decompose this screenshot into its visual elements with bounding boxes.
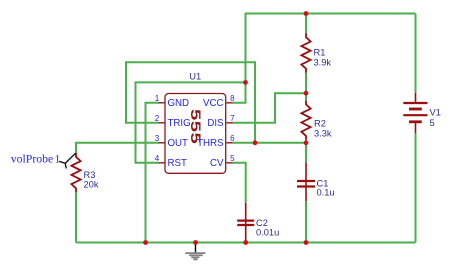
svg-text:3.3k: 3.3k	[314, 128, 332, 138]
wire V1 top lead	[415, 14, 417, 93]
svg-text:0.01u: 0.01u	[256, 228, 279, 238]
svg-text:THRS: THRS	[197, 138, 224, 149]
probe volProbe1	[11, 151, 76, 168]
svg-text:DIS: DIS	[207, 118, 224, 129]
wire R1 top lead	[305, 14, 307, 34]
svg-text:C2: C2	[256, 218, 268, 228]
node DIS / R1-R2	[304, 91, 309, 96]
wire C1 top lead	[305, 143, 307, 163]
pin 8 VCC	[203, 94, 235, 109]
wire R2 bottom lead	[305, 140, 307, 143]
pin 6 THRS	[197, 134, 235, 149]
svg-text:7: 7	[230, 114, 235, 123]
capacitor C1	[297, 162, 315, 201]
pin 3 OUT	[155, 134, 188, 149]
node THRS / R2-C1	[304, 140, 309, 145]
pin 2 TRIG	[155, 114, 191, 129]
node C2 / bottom rail	[243, 240, 248, 245]
svg-text:20k: 20k	[84, 179, 99, 189]
op-amp U1 555 timer body	[165, 94, 226, 174]
svg-text:R2: R2	[314, 118, 326, 128]
wire V1 bottom lead	[415, 133, 417, 242]
wire RST to VCC	[136, 82, 246, 162]
wire top rail	[246, 13, 416, 15]
svg-text:U1: U1	[189, 72, 201, 82]
svg-text:TRIG: TRIG	[168, 118, 191, 129]
wire DIS	[233, 93, 307, 123]
pin 1 GND	[155, 94, 189, 109]
svg-text:2: 2	[155, 114, 160, 123]
battery V1	[403, 93, 427, 134]
svg-text:3.9k: 3.9k	[314, 58, 332, 68]
svg-text:5: 5	[230, 154, 235, 163]
svg-text:8: 8	[230, 94, 235, 103]
svg-text:GND: GND	[168, 98, 190, 109]
svg-text:R1: R1	[314, 48, 326, 58]
pin 5 CV	[210, 154, 235, 169]
svg-text:1: 1	[155, 94, 160, 103]
wire TRIG loop	[126, 62, 255, 143]
wire CV to C2	[233, 163, 246, 203]
wire OUT to R3	[76, 143, 159, 153]
node GND pin1 / bottom rail	[143, 240, 148, 245]
resistor R1	[301, 33, 310, 72]
wire R2 top lead	[305, 93, 307, 101]
pin 7 DIS	[207, 114, 235, 129]
wire C1 bottom lead	[305, 201, 307, 243]
capacitor C2	[237, 203, 254, 242]
svg-text:V1: V1	[430, 107, 441, 117]
wire THRS to R2	[233, 142, 307, 144]
wire R3 bottom lead	[75, 192, 77, 243]
svg-text:volProbe1: volProbe1	[11, 151, 61, 165]
resistor R3	[71, 153, 80, 192]
node TRIG loop / THRS	[253, 140, 258, 145]
resistor R2	[301, 101, 310, 140]
pin 4 RST	[155, 154, 187, 169]
svg-text:VCC: VCC	[203, 98, 223, 109]
wire VCC pin 8	[233, 82, 246, 102]
node ground / bottom rail	[193, 240, 198, 245]
ground	[185, 243, 205, 260]
node top rail / R1	[304, 11, 309, 16]
svg-text:4: 4	[155, 154, 160, 163]
svg-text:0.1u: 0.1u	[317, 188, 335, 198]
svg-text:6: 6	[230, 134, 235, 143]
node C1 / bottom rail	[304, 240, 309, 245]
svg-text:CV: CV	[210, 158, 224, 169]
wire R1 bottom lead	[305, 72, 307, 93]
wire GND pin 1	[146, 103, 159, 243]
svg-text:OUT: OUT	[168, 138, 189, 149]
wire bottom rail	[76, 242, 416, 244]
svg-text:5: 5	[430, 118, 435, 128]
node junction dots	[143, 11, 308, 245]
wire VCC vertical	[245, 13, 247, 83]
node VCC / RST	[243, 80, 248, 85]
svg-text:RST: RST	[168, 158, 187, 169]
svg-text:3: 3	[155, 134, 160, 143]
